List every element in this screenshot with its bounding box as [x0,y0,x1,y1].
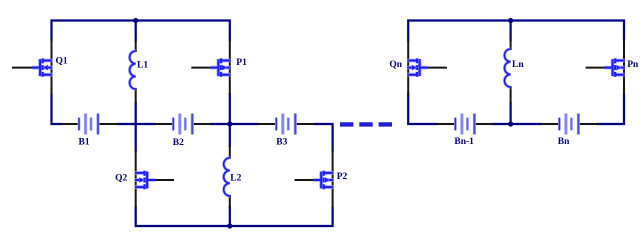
inductor Ln [505,49,511,87]
label P1 [236,58,247,68]
transistor P1 (PMOS) [210,58,230,76]
battery Bn [559,114,578,135]
pin Ln bottom [510,87,512,103]
wire B1 to B2 (crossing L1 column) [118,123,156,125]
pin L2 top [229,146,231,158]
wire Bn-1 to Bn (crossing Ln column) [493,123,541,125]
svg-text:Q1: Q1 [56,57,68,67]
label Q1 [56,57,68,67]
pin P1 drain-source column [229,40,231,94]
pin Pn gate [587,67,606,69]
svg-text:L1: L1 [137,61,148,71]
pin Qn gate [428,67,447,69]
svg-text:B2: B2 [173,138,184,148]
svg-text:B3: B3 [276,137,287,147]
pin Bn-1 left [437,123,455,125]
pin L2 bottom [229,196,231,207]
junction top rail / L1 [133,18,138,23]
svg-text:B1: B1 [79,138,90,148]
battery B2 [173,114,192,135]
pin B2 right [192,123,211,125]
svg-text:Bn: Bn [558,137,570,147]
inductor L2 [224,158,230,196]
battery B1 [79,114,98,135]
pin B1 left [61,123,79,125]
pin Q1 drain-source column [51,40,53,94]
pin B3 left [258,123,276,125]
junction bottom rail / L2 [227,223,232,228]
pin P1 gate [192,67,210,69]
battery Bn-1 [455,114,474,135]
transistor P2 (PMOS) [313,171,333,189]
pin Pn drain-source column [623,40,625,94]
label Qn [389,60,402,70]
label Bn [558,137,570,147]
label L1 [137,61,148,71]
pin P2 drain-source column [332,151,334,208]
pin Ln top [510,40,512,49]
battery B3 [276,114,295,135]
transistor Q1 (NMOS) [32,58,52,76]
svg-text:Q2: Q2 [115,173,127,183]
svg-text:Bn-1: Bn-1 [454,137,474,147]
pin Bn right [578,123,597,125]
wire L1 top connection [135,21,137,41]
pin B1 right [98,123,118,125]
label Bn-1 [454,137,474,147]
pin Q1 gate [13,67,32,69]
label L2 [230,173,241,183]
pin Qn drain-source column [407,40,409,94]
wire L1 bottom to Q2 drain [135,103,137,151]
wire Q1 source to battery row [52,94,62,124]
pin Bn-1 right [474,123,492,125]
svg-text:L2: L2 [230,173,241,183]
wire L2 bottom connection [229,207,231,226]
inductor L1 [130,51,136,89]
pin Bn left [541,123,559,125]
label B1 [79,138,90,148]
wire top rail left (node drain bus) [52,21,230,41]
wire P1 source / L2 top [229,94,231,146]
junction battery row / Ln [508,121,513,126]
label Pn [627,60,639,70]
pin B2 left [155,123,173,125]
pin L1 bottom [135,89,137,103]
dashed continuation line [340,122,392,126]
wire B3 to P2 drain [314,124,332,151]
wire top rail right [408,21,624,41]
pin B3 right [295,123,314,125]
wire Ln top connection [510,21,512,41]
wire B2 to B3 [211,123,258,125]
wire Bn to Pn source [597,94,624,124]
label B3 [276,137,287,147]
label Q2 [115,173,127,183]
wire bottom rail left [136,208,333,227]
label B2 [173,138,184,148]
label P2 [337,172,348,182]
wire Ln bottom connection [510,103,512,124]
transistor Qn (NMOS, mirrored) [408,58,428,76]
pin L1 top [135,40,137,51]
pin Q2 gate [155,179,174,181]
transistor Pn (PMOS) [605,58,625,76]
transistor Q2 (NMOS, mirrored) [135,171,155,189]
junction top rail / Ln [508,18,513,23]
svg-text:P1: P1 [236,58,247,68]
pin Q2 drain-source column [135,151,137,208]
svg-text:P2: P2 [337,172,348,182]
svg-text:Qn: Qn [389,60,402,70]
label Ln [512,60,524,70]
svg-text:Pn: Pn [627,60,639,70]
pin P2 gate [296,179,315,181]
junction battery row / L2 [227,121,232,126]
wire Qn source to battery row [408,94,437,124]
svg-text:Ln: Ln [512,60,524,70]
